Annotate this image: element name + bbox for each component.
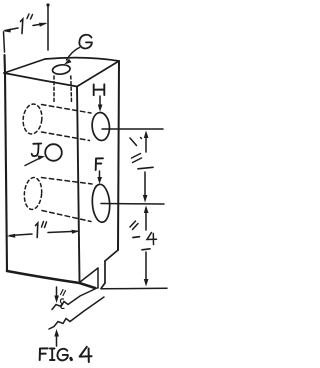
strip dimension up arrowhead bbox=[54, 329, 59, 337]
half inch dimension line lower bbox=[144, 172, 146, 199]
arrowhead of J leader bbox=[38, 156, 46, 160]
block right back edge bbox=[118, 61, 119, 250]
strip thickness dimension upper line bbox=[56, 287, 58, 299]
figure caption FIG.4 bbox=[40, 348, 48, 360]
hole F ellipse on right face bbox=[91, 184, 111, 223]
half inch upper arrowhead bbox=[144, 131, 149, 139]
strip label inch marks bbox=[61, 290, 64, 295]
tenon front vertical edge bbox=[97, 268, 99, 288]
one quarter label whole digit bar bbox=[133, 236, 140, 239]
bottom one inch left arrowhead bbox=[7, 234, 16, 238]
label H bbox=[94, 84, 105, 95]
half inch label fraction bar bbox=[138, 167, 153, 169]
block top-right edge bbox=[77, 61, 119, 87]
hole J circle on front face bbox=[45, 144, 62, 161]
bottom one inch right arrowhead bbox=[72, 230, 81, 234]
arrowhead of H leader bbox=[98, 105, 103, 112]
half inch label inch marks bbox=[132, 154, 141, 159]
bottom label 1 digit bbox=[36, 223, 38, 238]
tenon right vertical edge bbox=[104, 261, 106, 283]
top label inch marks bbox=[27, 14, 29, 19]
one quarter label inch marks bbox=[130, 221, 136, 227]
half inch lower arrowhead bbox=[143, 195, 148, 203]
block front right edge bbox=[77, 87, 80, 282]
arrowhead of F leader bbox=[97, 177, 102, 184]
bottom right extension line bbox=[101, 287, 167, 290]
top dimension right extension line bbox=[47, 5, 49, 50]
leader line from hole F bbox=[101, 203, 164, 206]
upper hidden cylinder top dashed line bbox=[42, 105, 92, 114]
leader line of G bbox=[67, 48, 80, 61]
strip bottom edge with break bbox=[49, 297, 104, 329]
top label 1 digit bbox=[21, 19, 23, 34]
bottom label inch marks bbox=[42, 222, 44, 228]
one quarter label lower bar bbox=[142, 249, 150, 250]
tenon front triangle diagonal bbox=[80, 268, 98, 282]
one quarter dimension line lower bbox=[145, 252, 147, 283]
half inch dimension line upper bbox=[145, 134, 147, 152]
hole G hidden dashed wall left bbox=[53, 76, 55, 103]
leader line of J bbox=[25, 158, 41, 166]
upper hidden cylinder dashed ellipse bbox=[22, 103, 44, 135]
leader line from hole H bbox=[102, 128, 163, 130]
top dimension left arrowhead bbox=[3, 29, 12, 33]
one quarter lower arrowhead bbox=[144, 279, 149, 287]
block top back edge bbox=[45, 58, 119, 61]
top dimension line bbox=[5, 28, 18, 31]
bottom chamfer edge bbox=[105, 250, 118, 261]
one quarter label digit 4 bbox=[147, 233, 157, 245]
one quarter dimension line upper bbox=[145, 208, 147, 230]
hole H ellipse on right face bbox=[91, 112, 111, 141]
lower hidden cylinder top dashed line bbox=[42, 178, 93, 185]
label J bbox=[32, 144, 42, 157]
arrowhead of G leader bbox=[64, 59, 72, 65]
hole G ellipse on top face bbox=[52, 64, 71, 75]
block left edge bbox=[5, 55, 8, 271]
half inch label digit 2 stroke bbox=[130, 138, 137, 146]
hole G hidden dashed wall right bbox=[70, 76, 73, 103]
lower hidden cylinder bottom dashed line bbox=[42, 211, 91, 222]
leader line of F bbox=[99, 171, 101, 179]
one quarter upper arrowhead bbox=[144, 206, 149, 214]
leader line of H bbox=[99, 96, 101, 106]
top dimension left extension line bbox=[4, 32, 5, 52]
strip top edge with break bbox=[52, 288, 97, 310]
lower hidden cylinder dashed ellipse bbox=[23, 177, 43, 210]
bottom one inch dimension line bbox=[10, 234, 32, 236]
upper hidden cylinder bottom dashed line bbox=[42, 132, 90, 141]
label G bbox=[79, 35, 92, 49]
block top-left back edge bbox=[4, 59, 45, 73]
strip dimension down arrowhead bbox=[54, 296, 59, 304]
label F bbox=[96, 158, 103, 170]
block front top edge bbox=[4, 73, 77, 87]
block front bottom edge bbox=[7, 271, 95, 288]
tenon lower diagonal edge bbox=[101, 283, 105, 289]
strip thickness dimension lower line bbox=[56, 332, 58, 346]
strip label eighth digit bbox=[60, 299, 64, 309]
extension line top dot bbox=[46, 3, 49, 6]
top dimension right arrowhead bbox=[39, 23, 48, 27]
